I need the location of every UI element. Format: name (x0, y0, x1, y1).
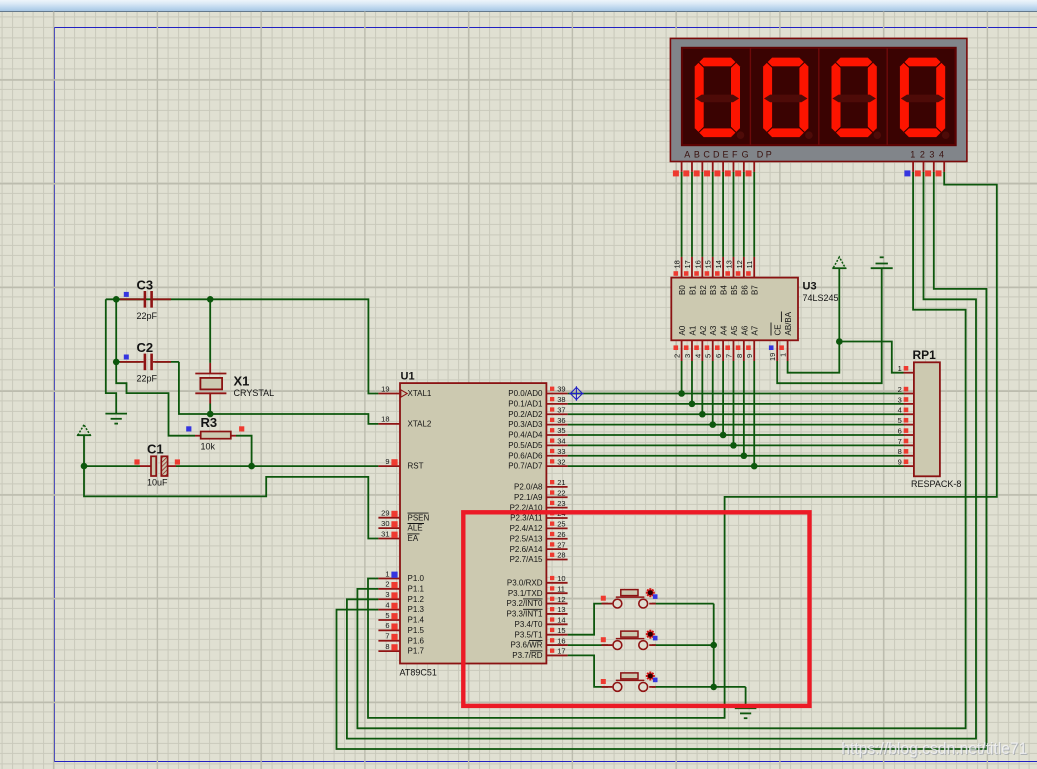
U1 pin 7 stub (378, 632, 400, 641)
wire display segment E to 74LS245 B4 (722, 172, 724, 257)
RP1 pin 7 stub (898, 437, 914, 446)
display segment pin D stub (704, 162, 713, 177)
capacitor C3 22pF (120, 278, 171, 322)
U1 pin 24 stub (546, 509, 567, 518)
svg-text:P1.6: P1.6 (408, 636, 425, 645)
wire P0.5 bus row (U1 pin 34 to RESPACK pin 7) (568, 361, 904, 445)
node C2 left junction (113, 359, 120, 366)
svg-text:XTAL2: XTAL2 (408, 420, 432, 429)
svg-text:D: D (757, 150, 764, 160)
RP1 pin 3 stub (898, 395, 914, 404)
svg-text:P1.5: P1.5 (408, 626, 425, 635)
svg-text:8: 8 (385, 642, 389, 651)
svg-text:16: 16 (557, 636, 565, 645)
U1 pin 11 stub (546, 584, 567, 593)
display digit 3 pin stub (925, 162, 934, 177)
svg-text:P3.0/RXD: P3.0/RXD (507, 578, 543, 587)
U1 pin 8 stub (378, 642, 400, 651)
U1 pin 34 stub (546, 437, 567, 446)
svg-text:ALE: ALE (408, 524, 423, 533)
wire P0.0 bus row (U1 pin 39 to RESPACK pin 2) (568, 361, 904, 394)
svg-text:U3: U3 (803, 281, 817, 293)
RP1 pin 2 stub (898, 385, 914, 394)
svg-text:P2.0/A8: P2.0/A8 (514, 483, 543, 492)
svg-text:P3.3/INT1: P3.3/INT1 (506, 610, 543, 619)
U1 pin 38 stub (546, 395, 567, 404)
svg-text:B: B (694, 150, 700, 160)
svg-text:P3.6/WR: P3.6/WR (510, 641, 542, 650)
svg-text:XTAL1: XTAL1 (408, 389, 432, 398)
crystal X1 (195, 363, 274, 404)
wire P0.3 bus row (U1 pin 36 to RESPACK pin 5) (568, 361, 904, 425)
svg-text:23: 23 (557, 499, 565, 508)
U1 pin 19 stub (378, 384, 400, 393)
svg-text:5: 5 (385, 611, 389, 620)
svg-text:22: 22 (557, 488, 565, 497)
svg-text:3: 3 (898, 395, 902, 404)
U1 pin 12 stub (546, 595, 567, 604)
display digit 1 showing 0 (695, 58, 745, 139)
display segment pin C stub (694, 162, 703, 177)
wire buttons common to ground (652, 604, 746, 709)
svg-text:A4: A4 (720, 325, 729, 335)
U3 pin 17 (B1) top stub (683, 257, 698, 295)
U1 pin 1 stub (378, 569, 400, 578)
svg-text:A2: A2 (699, 325, 708, 335)
display segment pin E stub (714, 162, 723, 177)
buffer U3 74LS245 body (671, 278, 798, 341)
wire button 2 to U1 P3.6/WR (568, 644, 608, 646)
svg-text:11: 11 (557, 584, 565, 593)
svg-text:2: 2 (385, 580, 389, 589)
svg-text:AT89C51: AT89C51 (400, 668, 437, 678)
svg-text:19: 19 (768, 353, 777, 361)
svg-text:P2.4/A12: P2.4/A12 (510, 524, 543, 533)
svg-text:P1.1: P1.1 (408, 584, 425, 593)
svg-text:2: 2 (920, 150, 925, 160)
node C1 left junction (81, 463, 88, 470)
svg-text:12: 12 (557, 595, 565, 604)
wire display segment DP to 74LS245 B7 (753, 172, 755, 257)
wire CE to ground (U3 pin 19) (777, 268, 882, 383)
svg-text:AB/BA: AB/BA (784, 311, 793, 335)
node P0.1 bus junction (689, 401, 696, 408)
U1 pin 13 stub (546, 605, 567, 614)
U3 pin 7 (A5) bottom stub (724, 325, 739, 361)
svg-text:CRYSTAL: CRYSTAL (234, 388, 275, 398)
ground symbol right of U3 (871, 257, 893, 268)
svg-text:RP1: RP1 (913, 348, 937, 362)
svg-text:5: 5 (704, 354, 713, 358)
U1 pin 35 stub (546, 426, 567, 435)
svg-text:25: 25 (557, 520, 565, 529)
svg-text:P3.7/RD: P3.7/RD (512, 651, 542, 660)
node P0.6 bus junction (741, 452, 748, 459)
svg-text:2: 2 (673, 354, 682, 358)
svg-text:1: 1 (898, 364, 902, 373)
wire P0.1 bus row (U1 pin 38 to RESPACK pin 3) (568, 361, 904, 404)
node C3 left junction (113, 296, 120, 303)
wire crystal X1 top connection (209, 299, 211, 363)
svg-text:CE: CE (774, 324, 783, 335)
wire display segment C to 74LS245 B2 (701, 172, 703, 257)
svg-text:2: 2 (898, 385, 902, 394)
svg-text:B7: B7 (751, 285, 760, 295)
wire P1.1 to display digit 1 (357, 172, 965, 728)
U3 pin 4 (A2) bottom stub (693, 325, 708, 361)
wire P0.6 bus row (U1 pin 33 to RESPACK pin 8) (568, 361, 904, 456)
U1 clock input arrow at XTAL1 (401, 390, 407, 397)
svg-text:29: 29 (381, 509, 389, 518)
U1 pin 15 stub (546, 626, 567, 635)
svg-text:P3.2/INT0: P3.2/INT0 (506, 599, 543, 608)
wire P1.3 to display digit 3 (337, 172, 987, 749)
svg-text:33: 33 (557, 447, 565, 456)
U1 pin 16 stub (546, 636, 567, 645)
U1 reference label (401, 371, 415, 383)
svg-text:P2.7/A15: P2.7/A15 (510, 555, 543, 564)
svg-text:R3: R3 (201, 415, 218, 430)
U1 pin 37 stub (546, 405, 567, 414)
svg-text:4: 4 (385, 600, 389, 609)
svg-text:4: 4 (693, 354, 702, 358)
svg-text:8: 8 (898, 447, 902, 456)
svg-text:10: 10 (557, 574, 565, 583)
svg-text:P0.5/AD5: P0.5/AD5 (508, 441, 543, 450)
display segment pin B stub (683, 162, 692, 177)
U3 pin 15 (B3) top stub (704, 257, 719, 295)
U1 pin 23 stub (546, 499, 567, 508)
svg-text:13: 13 (557, 605, 565, 614)
svg-text:B6: B6 (740, 285, 749, 295)
svg-text:P2.1/A9: P2.1/A9 (514, 493, 543, 502)
display 4-digit 7-segment block (670, 38, 967, 161)
svg-text:1: 1 (385, 569, 389, 578)
svg-text:5: 5 (898, 416, 902, 425)
RP1 pin 4 stub (898, 406, 914, 415)
ground symbol left (oscillator) (105, 414, 127, 424)
svg-text:7: 7 (898, 437, 902, 446)
RP1 pin 1 stub (898, 364, 914, 373)
U1 pin 32 stub (546, 457, 567, 466)
svg-text:34: 34 (557, 437, 565, 446)
svg-text:38: 38 (557, 395, 565, 404)
wire display segment D to 74LS245 B3 (712, 172, 714, 257)
svg-text:P3.4/T0: P3.4/T0 (514, 620, 543, 629)
U3 pin 11 (B7) top stub (745, 257, 760, 295)
U1 pin 36 stub (546, 416, 567, 425)
U1 pin 3 stub (378, 590, 400, 599)
svg-text:X1: X1 (234, 374, 250, 389)
display digit 4 pin stub (936, 162, 945, 177)
U3 pin 13 (B5) top stub (724, 257, 739, 295)
wire display segment F to 74LS245 B5 (732, 172, 734, 257)
U3 pin 12 (B6) top stub (735, 257, 750, 295)
svg-text:P1.7: P1.7 (408, 647, 425, 656)
power symbol left (VCC arrow) (77, 425, 91, 435)
wire ground net left (C3/C2 left plates down to ground) (106, 299, 140, 413)
wire XTAL1 net (C3 right to U1 pin 19) (106, 299, 379, 393)
svg-text:P0.2/AD2: P0.2/AD2 (508, 410, 543, 419)
origin marker at P0.0 wire (569, 386, 584, 401)
svg-text:17: 17 (557, 647, 565, 656)
display digit 2 showing 0 (763, 58, 813, 139)
svg-text:16: 16 (693, 260, 702, 268)
U3 pin 3 (A1) bottom stub (683, 325, 698, 361)
U1 pin 2 stub (378, 580, 400, 589)
svg-text:F: F (732, 150, 738, 160)
svg-text:E: E (723, 150, 729, 160)
svg-text:18: 18 (381, 415, 389, 424)
U1 pin 26 stub (546, 530, 567, 539)
wire button 1 to U1 P3.5/T1 (568, 604, 608, 635)
U1 pin 17 stub (546, 647, 567, 656)
svg-text:P0.3/AD3: P0.3/AD3 (508, 420, 543, 429)
RP1 pin 9 stub (898, 458, 914, 467)
svg-text:8: 8 (735, 354, 744, 358)
U1 pin 39 stub (546, 385, 567, 394)
display digit 1 pin stub (904, 162, 913, 177)
node P0.3 bus junction (709, 421, 716, 428)
svg-text:B2: B2 (699, 285, 708, 295)
wire P1.2 to display digit 2 (347, 172, 976, 739)
U1 pin 4 stub (378, 600, 400, 609)
svg-text:1: 1 (779, 353, 788, 357)
display segment pin DP stub (746, 162, 755, 177)
svg-text:G: G (742, 150, 749, 160)
svg-text:74LS245: 74LS245 (803, 293, 839, 303)
svg-text:A6: A6 (740, 325, 749, 335)
U3 pin 1 (AB/BA) stub (779, 311, 794, 361)
U1 pin 14 stub (546, 616, 567, 625)
wire button 3 to U1 P3.7/RD (568, 655, 608, 687)
svg-text:7: 7 (385, 632, 389, 641)
RP1 reference label (913, 348, 937, 362)
svg-text:EA: EA (408, 534, 419, 543)
svg-text:37: 37 (557, 405, 565, 414)
svg-text:PSEN: PSEN (408, 513, 430, 522)
node X1 bottom junction (207, 411, 214, 418)
watermark text (841, 740, 1028, 759)
svg-text:P0.0/AD0: P0.0/AD0 (508, 389, 543, 398)
U1 pin 21 stub (546, 478, 567, 487)
U1 pin 5 stub (378, 611, 400, 620)
U1 pin 28 stub (546, 551, 567, 560)
svg-text:10k: 10k (201, 442, 216, 452)
svg-text:9: 9 (385, 457, 389, 466)
U1 pin 30 stub (378, 519, 400, 528)
resistor pack RP1 RESPACK-8 body (914, 362, 940, 476)
svg-text:11: 11 (745, 261, 754, 269)
U1 pin 18 stub (378, 415, 400, 424)
svg-text:P1.2: P1.2 (408, 595, 425, 604)
U1 value label AT89C51 (400, 668, 437, 678)
U1 left pin labels (408, 389, 432, 656)
svg-text:17: 17 (683, 260, 692, 268)
svg-text:31: 31 (381, 529, 389, 538)
svg-text:3: 3 (683, 354, 692, 358)
wire crystal X1 bottom connection (209, 404, 211, 415)
svg-text:A3: A3 (709, 325, 718, 335)
svg-text:P3.1/TXD: P3.1/TXD (508, 589, 543, 598)
U3 value label 74LS245 (803, 293, 839, 303)
svg-text:U1: U1 (401, 371, 415, 383)
svg-text:P2.3/A11: P2.3/A11 (510, 514, 543, 523)
wire XTAL2 net (C2 right to U1 pin 18) (155, 362, 378, 424)
svg-text:30: 30 (381, 519, 389, 528)
svg-text:39: 39 (557, 385, 565, 394)
display segment pin G stub (735, 162, 744, 177)
ground symbol buttons (735, 708, 757, 718)
svg-text:6: 6 (898, 426, 902, 435)
svg-text:C2: C2 (137, 340, 154, 355)
svg-text:18: 18 (673, 260, 682, 268)
svg-text:32: 32 (557, 457, 565, 466)
wire RST net (C1 to U1 pin 9) (84, 465, 378, 467)
svg-text:22pF: 22pF (137, 374, 158, 384)
node VCC junction right (836, 338, 843, 345)
svg-text:B5: B5 (730, 285, 739, 295)
display digit 3 showing 0 (832, 58, 882, 139)
U1 pin 31 stub (378, 529, 400, 538)
U1 pin 10 stub (546, 574, 567, 583)
svg-text:9: 9 (745, 354, 754, 358)
U1 pin 22 stub (546, 488, 567, 497)
svg-text:B0: B0 (678, 285, 687, 295)
wire R3 right to RST node (236, 436, 252, 466)
svg-text:9: 9 (898, 458, 902, 467)
wire P1.0 to display digit 4 (long route) (368, 172, 997, 718)
node C3 right / X1 top junction (207, 296, 214, 303)
svg-text:15: 15 (704, 260, 713, 268)
power symbol right (VCC arrow near U3) (832, 257, 846, 268)
RP1 pin 5 stub (898, 416, 914, 425)
wire P0.7 bus row (U1 pin 32 to RESPACK pin 9) (568, 361, 904, 466)
svg-text:3: 3 (929, 150, 934, 160)
U3 pin 6 (A4) bottom stub (714, 325, 729, 361)
node C1 right / R3 junction (248, 463, 255, 470)
svg-text:21: 21 (557, 478, 565, 487)
svg-text:C: C (703, 150, 710, 160)
node P0.2 bus junction (699, 411, 706, 418)
svg-text:P2.5/A13: P2.5/A13 (510, 534, 543, 543)
resistor R3 10k (186, 415, 244, 452)
U1 pin 25 stub (546, 520, 567, 529)
svg-text:10uF: 10uF (147, 478, 168, 488)
capacitor C2 22pF (120, 340, 171, 384)
wire VCC net left (power arrow / C1+ to U1 EA pin 31) (84, 435, 378, 538)
svg-text:P: P (766, 150, 772, 160)
U3 pin 8 (A6) bottom stub (735, 325, 750, 361)
U3 pin 16 (B2) top stub (693, 257, 708, 295)
microcontroller U1 AT89C51 body (400, 383, 546, 663)
svg-text:P1.0: P1.0 (408, 574, 425, 583)
RP1 pin 8 stub (898, 447, 914, 456)
wire C2 left to R3 left (ground to R3) (116, 362, 195, 436)
svg-text:22pF: 22pF (137, 311, 158, 321)
svg-text:36: 36 (557, 416, 565, 425)
wire P0.4 bus row (U1 pin 35 to RESPACK pin 6) (568, 361, 904, 435)
svg-text:P0.6/AD6: P0.6/AD6 (508, 451, 543, 460)
red highlight rectangle annotation (463, 512, 809, 706)
svg-text:4: 4 (898, 406, 902, 415)
svg-text:28: 28 (557, 551, 565, 560)
svg-text:P3.5/T1: P3.5/T1 (514, 630, 543, 639)
U3 pin 14 (B4) top stub (714, 257, 729, 295)
svg-text:26: 26 (557, 530, 565, 539)
svg-text:14: 14 (714, 260, 723, 268)
svg-text:19: 19 (381, 384, 389, 393)
svg-text:A1: A1 (688, 325, 697, 335)
U1 pin 6 stub (378, 621, 400, 630)
U3 pin 18 (B0) top stub (673, 257, 688, 295)
display segment pin A stub (673, 162, 682, 177)
svg-text:https://blog.csdn.net/title71: https://blog.csdn.net/title71 (841, 740, 1027, 758)
svg-text:6: 6 (714, 354, 723, 358)
node P0.7 bus junction (751, 463, 758, 470)
push button 3 (601, 672, 658, 692)
wire display segment B to 74LS245 B1 (691, 172, 693, 257)
RP1 value label RESPACK-8 (911, 479, 961, 489)
svg-text:P0.4/AD4: P0.4/AD4 (508, 431, 543, 440)
wire VCC net right (power arrow to U3 AB/BA and RP1 pin1) (788, 268, 904, 373)
svg-text:15: 15 (557, 626, 565, 635)
U3 pin 19 (CE) stub (768, 323, 783, 362)
svg-text:B3: B3 (709, 285, 718, 295)
svg-text:C1: C1 (147, 442, 164, 457)
svg-text:3: 3 (385, 590, 389, 599)
svg-text:P1.4: P1.4 (408, 616, 425, 625)
svg-text:C3: C3 (137, 278, 154, 293)
display digit 4 showing 0 (900, 58, 950, 139)
capacitor C1 10uF electrolytic (134, 442, 180, 488)
svg-text:P0.1/AD1: P0.1/AD1 (508, 399, 543, 408)
wire display segment G to 74LS245 B6 (743, 172, 745, 257)
wire display segment A to 74LS245 B0 (681, 172, 683, 257)
node button 3 common junction (710, 684, 717, 691)
svg-text:RESPACK-8: RESPACK-8 (911, 479, 961, 489)
svg-text:14: 14 (557, 616, 565, 625)
svg-text:A5: A5 (730, 325, 739, 335)
svg-text:12: 12 (735, 260, 744, 268)
wire P0.2 bus row (U1 pin 37 to RESPACK pin 4) (568, 361, 904, 414)
svg-text:P0.7/AD7: P0.7/AD7 (508, 462, 543, 471)
RP1 pin 6 stub (898, 426, 914, 435)
U3 pin 9 (A7) bottom stub (745, 325, 760, 361)
U1 right pin labels (506, 389, 543, 660)
svg-text:B4: B4 (720, 285, 729, 295)
svg-text:6: 6 (385, 621, 389, 630)
display segment labels ABCDEFG DP (684, 150, 772, 160)
svg-text:13: 13 (724, 260, 733, 268)
U1 pin 29 stub (378, 509, 400, 518)
svg-text:P2.6/A14: P2.6/A14 (510, 545, 543, 554)
svg-text:P1.3: P1.3 (408, 605, 425, 614)
svg-text:RST: RST (408, 462, 424, 471)
svg-text:A: A (684, 150, 690, 160)
push button 1 (601, 588, 658, 608)
U3 reference label (803, 281, 817, 293)
node P0.0 bus junction (678, 390, 685, 397)
display digit labels 1234 (910, 150, 944, 160)
svg-text:27: 27 (557, 540, 565, 549)
svg-text:1: 1 (910, 150, 915, 160)
push button 2 (601, 630, 658, 650)
toolbar bottom edge (0, 0, 1037, 12)
U3 pin 5 (A3) bottom stub (704, 325, 719, 361)
display digit 2 pin stub (915, 162, 924, 177)
node P0.4 bus junction (720, 432, 727, 439)
